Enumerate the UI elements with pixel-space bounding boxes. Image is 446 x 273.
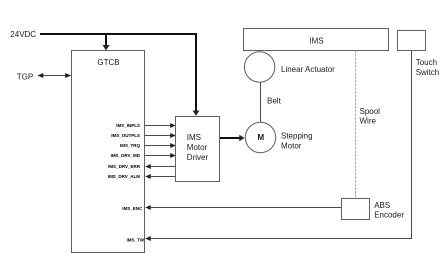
svg-text:Switch: Switch xyxy=(416,68,440,77)
ABS encoder block xyxy=(342,199,370,220)
stepping motor M circle xyxy=(245,122,275,152)
svg-text:M: M xyxy=(257,133,264,142)
svg-text:IMS_OUTPLS: IMS_OUTPLS xyxy=(111,133,140,138)
svg-text:Belt: Belt xyxy=(267,96,282,105)
svg-text:Touch: Touch xyxy=(416,58,437,67)
wire TGP bidirectional arrow xyxy=(42,75,67,77)
svg-text:TGP: TGP xyxy=(17,72,33,81)
svg-text:IMS_TW: IMS_TW xyxy=(127,237,145,242)
svg-text:IMS_ENC: IMS_ENC xyxy=(122,206,143,211)
svg-text:IMS_TRQ: IMS_TRQ xyxy=(120,143,141,148)
svg-text:IMS_DRV_ERR: IMS_DRV_ERR xyxy=(108,164,141,169)
svg-text:ABS: ABS xyxy=(374,201,390,210)
wire 24VDC main power line xyxy=(40,34,196,111)
svg-text:Driver: Driver xyxy=(187,153,209,162)
svg-text:24VDC: 24VDC xyxy=(10,30,36,39)
GTCB block xyxy=(72,51,145,253)
svg-text:Encoder: Encoder xyxy=(374,210,404,219)
svg-text:Stepping: Stepping xyxy=(281,132,313,141)
svg-text:Spool: Spool xyxy=(360,107,381,116)
linear actuator circle xyxy=(244,52,274,82)
svg-text:Wire: Wire xyxy=(360,116,377,125)
wire arrowhead into IMS Motor Driver xyxy=(193,111,200,116)
spool wire dashed line xyxy=(355,51,357,199)
svg-text:Motor: Motor xyxy=(281,141,302,150)
IMS block xyxy=(244,29,389,51)
svg-text:Linear Actuator: Linear Actuator xyxy=(281,65,335,74)
svg-text:IMS_INPLS: IMS_INPLS xyxy=(116,123,140,128)
svg-text:Motor: Motor xyxy=(187,143,208,152)
wire 24VDC branch to GTCB xyxy=(105,34,107,46)
touch switch block xyxy=(398,31,426,51)
svg-text:GTCB: GTCB xyxy=(97,58,119,67)
svg-text:IMS: IMS xyxy=(187,133,201,142)
svg-text:IMS: IMS xyxy=(309,36,323,45)
belt line xyxy=(260,83,262,123)
svg-text:IMS_DRV_ALM: IMS_DRV_ALM xyxy=(108,174,140,179)
svg-text:IMS_DRV_MD: IMS_DRV_MD xyxy=(111,153,141,158)
wire driver to stepping motor xyxy=(220,137,240,139)
IMS Motor Driver block xyxy=(176,117,220,182)
